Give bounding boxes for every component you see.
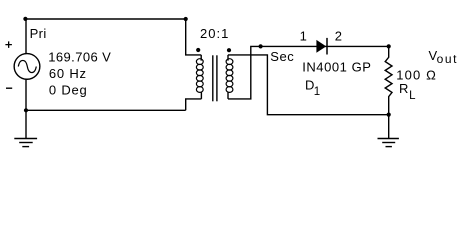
svg-text:Pri: Pri — [30, 26, 47, 41]
svg-text:IN4001 GP: IN4001 GP — [302, 59, 371, 74]
svg-text:1: 1 — [300, 29, 307, 44]
svg-text:L: L — [409, 90, 416, 102]
svg-text:Sec: Sec — [270, 49, 294, 64]
svg-text:R: R — [399, 81, 408, 96]
svg-text:1: 1 — [314, 86, 320, 98]
svg-text:60 Hz: 60 Hz — [49, 66, 87, 81]
svg-text:20:1: 20:1 — [200, 26, 229, 41]
svg-text:169.706 V: 169.706 V — [48, 49, 111, 64]
svg-text:0 Deg: 0 Deg — [49, 83, 88, 98]
svg-text:out: out — [437, 52, 458, 66]
svg-text:2: 2 — [335, 29, 342, 44]
